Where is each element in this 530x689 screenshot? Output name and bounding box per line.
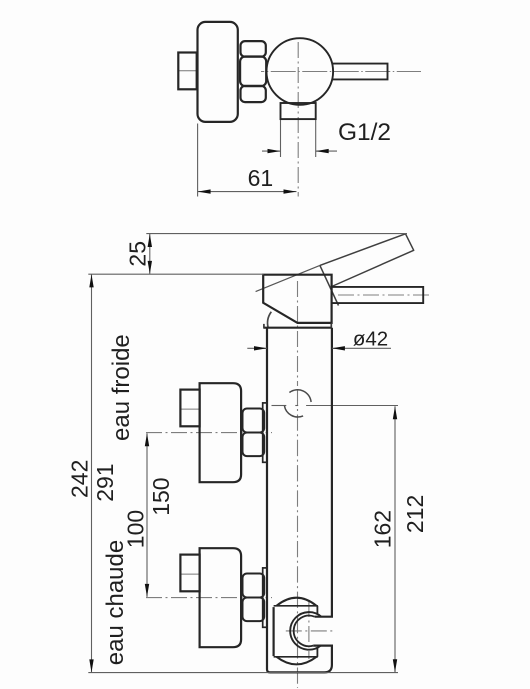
svg-text:ø42: ø42 xyxy=(353,328,388,351)
svg-text:G1/2: G1/2 xyxy=(338,119,391,146)
svg-text:eau chaude: eau chaude xyxy=(102,540,129,665)
svg-text:eau froide: eau froide xyxy=(108,334,135,441)
svg-text:291: 291 xyxy=(92,463,118,501)
svg-text:25: 25 xyxy=(124,241,150,267)
svg-text:242: 242 xyxy=(66,460,92,498)
svg-text:212: 212 xyxy=(402,495,428,533)
svg-text:61: 61 xyxy=(248,165,274,191)
svg-text:162: 162 xyxy=(370,510,396,548)
svg-text:150: 150 xyxy=(148,477,174,515)
